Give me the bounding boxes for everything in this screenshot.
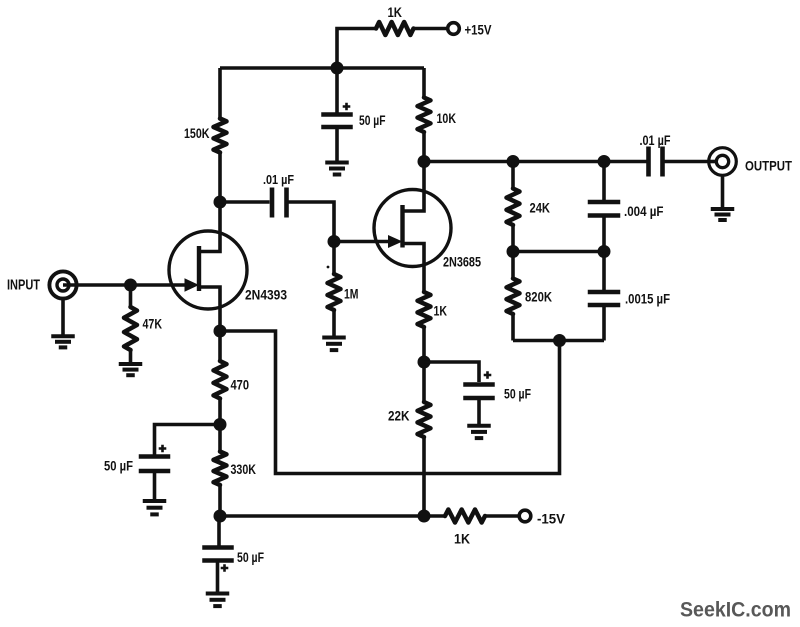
resistor 1K (Q2 source) bbox=[418, 292, 431, 327]
ground (input) bbox=[51, 336, 75, 347]
node 24K top bbox=[507, 155, 520, 168]
label 330K bbox=[231, 461, 257, 477]
wire feedback Q1 source to network bbox=[220, 331, 560, 474]
wire 330K to -15V rail bbox=[218, 485, 222, 516]
svg-text:150K: 150K bbox=[184, 125, 210, 141]
wire mid node to 820K bbox=[511, 252, 515, 279]
node feedback junction bbox=[553, 334, 566, 347]
svg-text:.0015 µF: .0015 µF bbox=[625, 291, 670, 307]
label .01uF (interstage) bbox=[263, 172, 294, 187]
Q1 drain lead bbox=[199, 202, 220, 252]
Q2 source lead bbox=[403, 244, 425, 293]
Q2 drain lead bbox=[403, 162, 425, 212]
wire supply rail bbox=[220, 66, 424, 70]
label 2N4393 bbox=[245, 287, 287, 303]
label -15V bbox=[537, 511, 566, 527]
label OUTPUT bbox=[745, 159, 792, 174]
svg-text:330K: 330K bbox=[231, 461, 257, 477]
node 820K top bbox=[507, 245, 520, 258]
wire 1K to +15V terminal bbox=[414, 27, 449, 31]
ground (1M) bbox=[322, 338, 346, 351]
wire rail to C-decouple bbox=[335, 68, 339, 113]
resistor 10K bbox=[418, 98, 431, 133]
resistor 470 bbox=[214, 361, 227, 399]
wire Q1 source to 470 bbox=[218, 331, 222, 361]
node .004 top bbox=[598, 155, 611, 168]
svg-text:24K: 24K bbox=[530, 200, 551, 216]
label 1K (top) bbox=[388, 5, 403, 20]
resistor 330K bbox=[214, 452, 227, 486]
ground (47K) bbox=[119, 364, 143, 375]
label 50uF (bottom) bbox=[237, 549, 264, 565]
label 50uF (top) bbox=[359, 112, 386, 128]
label 1M bbox=[344, 286, 359, 302]
wire cap to ground bbox=[335, 129, 339, 161]
wire rail to 10K bbox=[422, 68, 426, 98]
wire -15V rail bbox=[220, 514, 445, 518]
svg-text:10K: 10K bbox=[437, 110, 457, 126]
wire 1M to ground bbox=[332, 310, 336, 336]
ground (mid-left 50uF) bbox=[143, 501, 167, 514]
node Q1 source bbox=[214, 325, 227, 338]
ground (Q2 bypass) bbox=[467, 426, 491, 438]
resistor 1K (to -15V) bbox=[445, 510, 485, 523]
wire OUTPUT inner stub bbox=[709, 160, 716, 164]
svg-text:.01 µF: .01 µF bbox=[263, 172, 294, 187]
wire 1K to 22K bbox=[422, 327, 426, 402]
svg-text:-15V: -15V bbox=[537, 511, 566, 527]
node 470/330K junction bbox=[214, 418, 227, 431]
wire 1K to -15V terminal bbox=[485, 514, 520, 518]
label 2N3685 bbox=[443, 254, 481, 270]
label INPUT bbox=[7, 277, 40, 294]
label +15V bbox=[465, 22, 493, 38]
resistor 1K (top, to +15V) bbox=[376, 22, 414, 35]
wire output rail bbox=[424, 160, 648, 164]
wire 470 to node bbox=[218, 399, 222, 425]
wire C-couple to Q2 gate node bbox=[289, 202, 335, 242]
wire bottom cap to ground bbox=[216, 563, 220, 593]
label 1K (bottom) bbox=[454, 531, 470, 547]
svg-text:1K: 1K bbox=[388, 5, 403, 20]
terminal -15V bbox=[519, 510, 531, 522]
wire mid-left cap to ground bbox=[153, 473, 157, 500]
ground (output) bbox=[711, 209, 735, 220]
wire .0015 to bottom node bbox=[602, 307, 606, 341]
svg-text:1K: 1K bbox=[434, 303, 448, 319]
label 470 bbox=[231, 377, 250, 393]
svg-text:2N4393: 2N4393 bbox=[245, 287, 287, 303]
transistor Q2 2N3685 body bbox=[374, 190, 451, 267]
svg-text:SeekIC.com: SeekIC.com bbox=[680, 598, 791, 622]
label 820K bbox=[525, 289, 552, 305]
label .0015uF bbox=[625, 291, 670, 307]
wire 24K to mid node bbox=[511, 225, 515, 252]
wire 22K to -15V rail bbox=[422, 437, 426, 516]
node 22K bottom bbox=[418, 510, 431, 523]
node Q2 drain bbox=[418, 155, 431, 168]
svg-text:2N3685: 2N3685 bbox=[443, 254, 481, 270]
node Q2 gate bbox=[328, 235, 341, 248]
label 150K bbox=[184, 125, 210, 141]
wire rail to 24K bbox=[511, 162, 515, 189]
capacitor .01uF (output) bbox=[649, 147, 663, 177]
label 10K bbox=[437, 110, 457, 126]
wire mid rail bbox=[513, 250, 604, 254]
terminal +15V bbox=[448, 23, 460, 35]
svg-text:1M: 1M bbox=[344, 286, 359, 302]
resistor 150K bbox=[214, 119, 227, 153]
wire mid node to .0015 bbox=[602, 252, 606, 291]
terminal OUTPUT outer bbox=[709, 148, 737, 176]
wire +15V rail top bbox=[337, 29, 376, 69]
wire rail to bottom cap bbox=[217, 516, 221, 546]
ground stub (input) bbox=[61, 299, 65, 335]
wire .004 to mid node bbox=[602, 218, 606, 252]
capacitor .0015uF bbox=[588, 292, 621, 305]
node 330K bottom bbox=[214, 510, 227, 523]
Q2 gate arrow bbox=[388, 235, 403, 248]
wire node to bypass cap bbox=[424, 362, 479, 382]
node Q2 source bypass bbox=[418, 356, 431, 369]
wire 10K to Q2 drain node bbox=[422, 132, 426, 162]
resistor 22K bbox=[418, 402, 431, 437]
capacitor 50uF (supply decoupling) bbox=[321, 115, 353, 128]
wire Q2 gate lead bbox=[334, 240, 389, 244]
ground (top 50uF) bbox=[325, 163, 349, 175]
wire node to 1M bbox=[332, 242, 336, 275]
wire rail to .004 bbox=[602, 162, 606, 201]
ground stub (output) bbox=[721, 175, 725, 207]
node input junction bbox=[124, 279, 137, 292]
svg-text:INPUT: INPUT bbox=[7, 277, 40, 294]
svg-text:.01 µF: .01 µF bbox=[640, 132, 671, 148]
resistor 24K bbox=[507, 189, 520, 226]
svg-text:470: 470 bbox=[231, 377, 250, 393]
plus sign (bottom 50uF) bbox=[221, 564, 229, 572]
wire network bottom rail bbox=[513, 339, 604, 343]
label .004uF bbox=[624, 203, 664, 219]
wire rail to 150K bbox=[218, 68, 222, 119]
svg-text:50 µF: 50 µF bbox=[237, 549, 264, 565]
wire input to gate bbox=[63, 283, 185, 287]
label 47K bbox=[143, 316, 163, 332]
Q2 channel bar bbox=[400, 205, 404, 248]
Q1 source lead bbox=[199, 287, 220, 331]
speck artifact bbox=[327, 266, 330, 269]
wire bypass cap to ground bbox=[477, 400, 481, 424]
wire 820K to bottom node bbox=[511, 314, 515, 341]
node .0015 top bbox=[598, 245, 611, 258]
svg-text:22K: 22K bbox=[388, 408, 410, 424]
terminal INPUT inner bbox=[57, 279, 69, 291]
resistor 820K bbox=[507, 279, 520, 315]
svg-text:OUTPUT: OUTPUT bbox=[745, 159, 792, 174]
wire node to 47K bbox=[129, 285, 133, 307]
svg-text:50 µF: 50 µF bbox=[504, 386, 531, 402]
svg-text:1K: 1K bbox=[454, 531, 470, 547]
resistor 47K bbox=[124, 307, 137, 350]
plus sign (Q2 bypass) bbox=[484, 371, 492, 379]
capacitor .01uF (interstage) bbox=[272, 188, 287, 218]
wire 47K to ground bbox=[129, 350, 133, 362]
label 50uF (Q2 bypass) bbox=[504, 386, 531, 402]
watermark SeekIC.com bbox=[680, 598, 791, 622]
svg-text:.004 µF: .004 µF bbox=[624, 203, 664, 219]
wire node to mid-left cap bbox=[155, 425, 221, 456]
capacitor .004uF bbox=[588, 202, 621, 216]
svg-text:50 µF: 50 µF bbox=[359, 112, 386, 128]
node supply rail junction bbox=[331, 62, 344, 75]
capacitor 50uF (mid-left) bbox=[139, 457, 171, 472]
ground (bottom 50uF) bbox=[206, 594, 230, 607]
wire cap to OUTPUT bbox=[663, 160, 710, 164]
terminal INPUT outer bbox=[49, 271, 76, 298]
capacitor 50uF (bottom) bbox=[202, 548, 234, 561]
label 24K bbox=[530, 200, 551, 216]
svg-text:47K: 47K bbox=[143, 316, 163, 332]
capacitor 50uF (Q2 bypass) bbox=[463, 385, 495, 399]
wire node to 330K bbox=[218, 425, 222, 452]
label .01uF (output) bbox=[640, 132, 671, 148]
Q1 channel bar bbox=[197, 246, 201, 291]
transistor Q1 2N4393 body bbox=[169, 231, 247, 309]
svg-text:50 µF: 50 µF bbox=[104, 458, 133, 474]
node Q1 drain bbox=[214, 196, 227, 209]
wire Q1 drain to C-couple bbox=[220, 200, 270, 204]
svg-text:820K: 820K bbox=[525, 289, 552, 305]
Q1 gate arrow bbox=[185, 278, 200, 291]
label 1K (Q2 source) bbox=[434, 303, 448, 319]
plus sign (mid-left 50uF) bbox=[159, 445, 167, 453]
svg-text:+15V: +15V bbox=[465, 22, 493, 38]
resistor 1M bbox=[328, 274, 341, 310]
label 22K bbox=[388, 408, 410, 424]
plus sign (top 50uF) bbox=[343, 103, 351, 111]
terminal OUTPUT inner bbox=[716, 155, 728, 167]
wire 150K to Q1 drain node bbox=[218, 153, 222, 203]
label 50uF (mid-left) bbox=[104, 458, 133, 474]
